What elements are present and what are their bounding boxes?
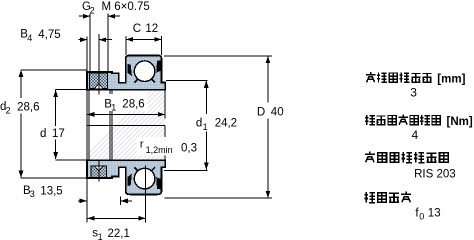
svg-text:28,6: 28,6: [122, 99, 144, 111]
svg-text:1: 1: [111, 103, 116, 113]
svg-text:3: 3: [410, 85, 417, 99]
svg-text:4: 4: [27, 33, 32, 43]
svg-text:C: C: [133, 23, 141, 35]
svg-text:0,3: 0,3: [181, 143, 197, 155]
svg-text:17: 17: [52, 128, 65, 140]
svg-text:3: 3: [30, 189, 35, 199]
svg-text:4,75: 4,75: [38, 29, 60, 41]
svg-text:d: d: [40, 128, 46, 140]
svg-text:12: 12: [145, 23, 158, 35]
svg-text:r: r: [140, 139, 144, 151]
svg-text:M 6×0.75: M 6×0.75: [102, 1, 150, 13]
svg-text:d: d: [196, 117, 202, 129]
svg-text:[Nm]: [Nm]: [447, 116, 473, 128]
svg-text:22,1: 22,1: [108, 228, 130, 240]
svg-text:[mm]: [mm]: [437, 73, 465, 85]
svg-text:2: 2: [6, 105, 11, 115]
svg-text:40: 40: [271, 107, 284, 119]
svg-text:4: 4: [412, 128, 419, 142]
svg-text:2: 2: [90, 5, 95, 15]
svg-text:1,2min: 1,2min: [146, 145, 173, 155]
svg-text:D: D: [257, 107, 265, 119]
svg-text:1: 1: [203, 122, 208, 132]
svg-text:1: 1: [98, 232, 103, 240]
svg-text:24,2: 24,2: [215, 118, 237, 130]
svg-text:0: 0: [419, 212, 424, 222]
svg-text:13: 13: [428, 208, 441, 220]
svg-text:13,5: 13,5: [40, 185, 62, 197]
svg-text:28,6: 28,6: [17, 101, 39, 113]
svg-text:RIS 203: RIS 203: [414, 169, 456, 181]
